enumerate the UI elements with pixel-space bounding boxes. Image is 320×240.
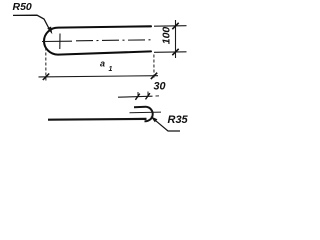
- dimension line a1: [39, 76, 159, 77]
- slot vertical center mark: [59, 34, 61, 50]
- leader for R35: [152, 117, 181, 131]
- svg-text:a: a: [100, 59, 105, 69]
- oblique tick bottom (100 dim): [172, 49, 178, 55]
- hook center line: [130, 111, 162, 114]
- extension stub right (30 dim): [147, 92, 149, 97]
- oblique tick right (a1 dim): [151, 73, 157, 79]
- dimension line 30 short continuation dash: [156, 95, 160, 97]
- hook top return line: [134, 106, 146, 109]
- slot horizontal center line (solid part through arc): [42, 40, 72, 42]
- oblique tick right (30 dim): [146, 93, 150, 99]
- extension stub left (30 dim): [137, 92, 139, 97]
- hook bar (long bottom line): [48, 118, 147, 121]
- arrowhead of R50 leader: [47, 27, 52, 35]
- svg-text:100: 100: [160, 27, 172, 45]
- svg-text:R50: R50: [13, 1, 32, 13]
- extension line right (a1 dim): [153, 55, 155, 79]
- oblique tick left (30 dim): [135, 94, 139, 100]
- arrowhead of R35 leader: [151, 116, 158, 122]
- leader for R50: [13, 15, 50, 29]
- extension line bottom (100 dim): [154, 51, 187, 54]
- dimension line 30: [118, 96, 153, 97]
- extension line top (100 dim): [154, 25, 187, 28]
- dimension line 100 (vertical): [175, 20, 177, 58]
- extension line left (a1 dim, from arc center down): [45, 48, 47, 83]
- oblique tick top (100 dim): [172, 23, 178, 29]
- slot horizontal center line (dash-dot): [76, 40, 152, 41]
- hook 180-degree bend arc: [145, 107, 153, 121]
- svg-text:1: 1: [109, 66, 113, 73]
- svg-text:R35: R35: [168, 114, 189, 126]
- svg-text:30: 30: [154, 80, 166, 92]
- oblique tick left (a1 dim): [43, 74, 49, 81]
- slot outline (stadium shape, left rounded end): [44, 26, 151, 54]
